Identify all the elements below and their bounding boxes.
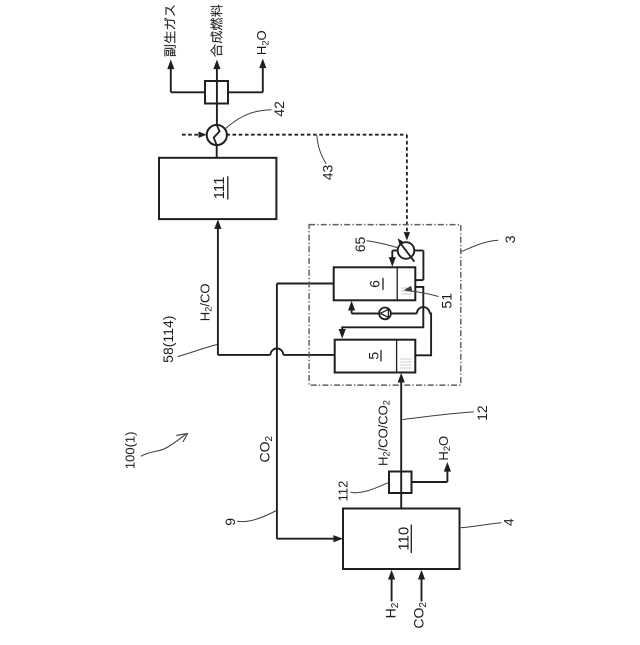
svg-text:58(114): 58(114) <box>160 316 176 363</box>
svg-text:12: 12 <box>474 405 490 421</box>
svg-text:100(1): 100(1) <box>122 432 137 470</box>
svg-text:43: 43 <box>320 165 336 181</box>
svg-text:5: 5 <box>366 352 382 360</box>
svg-text:110: 110 <box>395 527 412 551</box>
svg-text:42: 42 <box>271 101 287 117</box>
svg-text:4: 4 <box>500 518 516 526</box>
svg-text:6: 6 <box>367 280 383 288</box>
svg-text:111: 111 <box>211 176 228 199</box>
svg-text:112: 112 <box>335 481 350 502</box>
svg-text:65: 65 <box>352 237 368 253</box>
svg-text:H2​/CO: H2​/CO <box>197 284 213 322</box>
svg-text:51: 51 <box>438 293 454 309</box>
svg-text:3: 3 <box>502 235 518 243</box>
svg-text:9: 9 <box>222 518 238 526</box>
